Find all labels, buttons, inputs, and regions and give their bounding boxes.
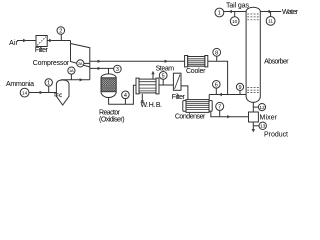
wire reactor outlet bbox=[109, 85, 136, 104]
wire condenser outlet to mixer bbox=[211, 111, 249, 116]
svg-text:W. H. B.: W. H. B. bbox=[140, 102, 162, 109]
svg-text:8: 8 bbox=[215, 50, 218, 56]
wire absorber bottoms to mixer bbox=[252, 102, 254, 112]
svg-text:Cooler: Cooler bbox=[186, 68, 206, 75]
wire stub stream 10 bbox=[234, 12, 236, 17]
reactor (oxidiser) bbox=[101, 74, 116, 78]
stream flag 7 bbox=[216, 102, 224, 110]
waste heat boiler W.H.B. bbox=[136, 78, 139, 94]
wire stub stream 1 bbox=[48, 86, 50, 92]
condenser bbox=[183, 101, 186, 112]
wire condenser gas inlet drop bbox=[208, 95, 210, 101]
absorber packing (top dashes) bbox=[247, 14, 259, 20]
svg-text:Tail gas: Tail gas bbox=[226, 3, 250, 10]
svg-text:Condenser: Condenser bbox=[175, 113, 206, 120]
wire compressor right edge extension bbox=[89, 67, 91, 80]
wire product outlet bbox=[252, 122, 254, 131]
wire gas manifold to absorber bbox=[209, 94, 246, 96]
mixer bbox=[249, 112, 259, 122]
svg-text:Filter: Filter bbox=[35, 47, 49, 54]
wire filter to compressor bbox=[47, 40, 70, 42]
svg-text:(Oxidiser): (Oxidiser) bbox=[99, 117, 125, 124]
stream flag 13 bbox=[259, 122, 266, 129]
stream flag 12 bbox=[258, 104, 265, 111]
wire ammonia feed bbox=[29, 92, 56, 94]
svg-text:Ammonia: Ammonia bbox=[6, 81, 34, 88]
svg-text:Water: Water bbox=[282, 9, 299, 16]
svg-text:11: 11 bbox=[268, 19, 273, 25]
svg-text:1A: 1A bbox=[69, 68, 74, 73]
svg-text:Filter: Filter bbox=[172, 94, 186, 101]
wire stub stream 9 bbox=[239, 91, 241, 95]
svg-text:2A: 2A bbox=[78, 61, 83, 66]
svg-text:3: 3 bbox=[116, 67, 119, 73]
wire stub stream 12 bbox=[253, 106, 258, 108]
wire stub stream 5 bbox=[162, 79, 164, 85]
wire stub stream 2 bbox=[60, 34, 62, 40]
svg-text:1: 1 bbox=[218, 11, 221, 17]
gauze filter bbox=[173, 73, 181, 90]
stream flag 4 bbox=[122, 91, 130, 99]
wire reactor inlet drop bbox=[108, 68, 110, 74]
svg-text:5: 5 bbox=[162, 73, 165, 79]
air filter bbox=[36, 36, 47, 47]
ammonia vaporiser bbox=[56, 80, 69, 105]
wire whb blowdown bbox=[141, 94, 143, 103]
svg-text:7: 7 bbox=[218, 104, 221, 110]
stream flag 3 bbox=[114, 65, 122, 73]
wire stub stream 7 bbox=[219, 110, 221, 116]
wire air inlet bbox=[17, 40, 36, 42]
stream flag 11 bbox=[266, 17, 275, 26]
wire compressor outlet lower (to reactor) bbox=[90, 67, 114, 69]
svg-text:2: 2 bbox=[59, 29, 62, 35]
svg-text:6: 6 bbox=[215, 82, 218, 88]
stream flag 10 bbox=[230, 17, 239, 26]
stream flag 1A bbox=[68, 67, 75, 74]
wire ammonia vapour line bbox=[61, 79, 90, 81]
svg-text:Product: Product bbox=[264, 131, 288, 138]
wire stub stream 4 bbox=[124, 99, 126, 105]
stream flag 2A bbox=[77, 60, 84, 67]
stream flag 2 bbox=[57, 27, 65, 35]
svg-text:14: 14 bbox=[22, 90, 28, 96]
wire stub stream 8 bbox=[216, 56, 218, 61]
absorber column bbox=[246, 7, 260, 11]
wire stub stream 6 bbox=[215, 88, 217, 94]
svg-text:4: 4 bbox=[124, 93, 127, 99]
stream flag 1 bbox=[45, 79, 52, 86]
wire compressor outlet upper (to cooler) bbox=[90, 60, 185, 62]
wire tail gas bbox=[224, 11, 246, 13]
wire whb to gas filter bbox=[159, 84, 173, 86]
wire stub stream 2A bbox=[84, 62, 90, 64]
wire gas filter to condenser bbox=[181, 86, 188, 100]
svg-text:Absorber: Absorber bbox=[264, 59, 289, 66]
stream flag 9 bbox=[236, 83, 243, 90]
absorber packing (bottom dashes) bbox=[247, 88, 259, 93]
svg-text:12: 12 bbox=[259, 105, 265, 111]
svg-text:Compressor: Compressor bbox=[33, 60, 70, 67]
svg-text:Mixer: Mixer bbox=[260, 114, 278, 121]
wire stub stream 11 bbox=[270, 12, 272, 17]
svg-text:10: 10 bbox=[232, 19, 238, 25]
stream flag 14 bbox=[20, 88, 29, 97]
cooler bbox=[185, 56, 188, 67]
stream flag 6 bbox=[213, 81, 221, 89]
vaporiser heater bbox=[54, 94, 59, 96]
compressor bbox=[70, 41, 72, 62]
wire water inlet bbox=[260, 11, 281, 13]
svg-text:13: 13 bbox=[260, 124, 266, 130]
wire cooler outlet bbox=[208, 61, 228, 94]
connector circle 1 (tail gas) bbox=[215, 8, 224, 17]
svg-text:9: 9 bbox=[238, 85, 241, 91]
wire stub stream 13 bbox=[253, 125, 259, 127]
svg-text:1: 1 bbox=[47, 81, 50, 87]
wire stub stream 1A bbox=[70, 74, 72, 80]
wire steam outlet bbox=[152, 72, 154, 79]
stream flag 5 bbox=[159, 72, 167, 80]
stream flag 8 bbox=[213, 48, 221, 56]
